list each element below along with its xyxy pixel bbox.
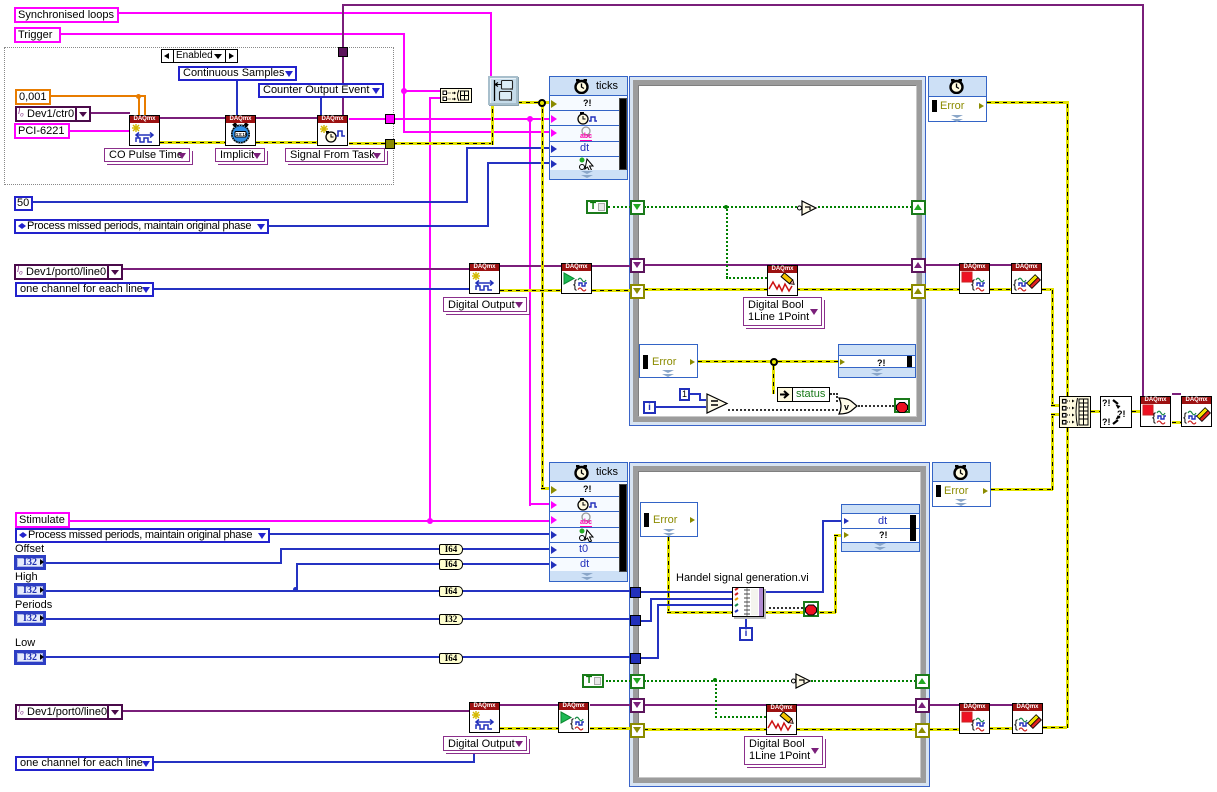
svg-text:{: { xyxy=(1183,410,1187,424)
synchronize timed structures vi xyxy=(488,76,518,105)
wire: DO task channel row 1 xyxy=(122,268,469,270)
timed loop2 right node Error xyxy=(932,462,991,507)
wire: Offset to t0 blue xyxy=(46,562,282,564)
svg-text:{: { xyxy=(971,717,975,731)
wire: error chain top row xyxy=(160,141,225,144)
squares: purple tunnel on dotted frame xyxy=(338,47,348,57)
svg-text:v: v xyxy=(844,402,849,412)
junction: pink dots xyxy=(401,88,407,94)
timed loop1 right node Error xyxy=(928,76,987,122)
wire: error DO row 1 xyxy=(500,289,561,292)
ring Digital Output #1 xyxy=(443,297,527,312)
DAQmx clear task row2 xyxy=(1012,703,1043,734)
wire: timing source name out of DAQmx create timing source xyxy=(349,118,549,120)
svg-text:{: { xyxy=(971,277,975,291)
wire: Process missed periods 2 blue xyxy=(267,533,549,535)
right inner node dt/?! loop2 xyxy=(841,504,920,552)
tunnel green in xyxy=(630,200,645,215)
ring Signal From Task xyxy=(285,148,385,162)
ring Continuous Samples xyxy=(178,66,297,81)
iteration terminal i loop1 xyxy=(643,401,656,414)
svg-text:{: { xyxy=(1152,410,1156,424)
wire: error inside loop2 subvi xyxy=(667,537,670,613)
DAQmx write #2 xyxy=(766,704,797,735)
tunnel purple out xyxy=(911,258,926,273)
merge errors vi xyxy=(1100,396,1132,428)
wire: error loop1 top node out, right rail xyxy=(987,101,1069,104)
wire: Periods blue xyxy=(46,618,631,620)
terminal I32 Periods xyxy=(14,611,46,626)
dotted config frame xyxy=(4,47,394,185)
DAQmx create channel CO xyxy=(129,115,160,146)
wire: Counter Output Event drop blue xyxy=(320,98,322,115)
ring Digital Bool 1Line 1Point #2 xyxy=(744,736,823,765)
tunnel error out loop2 xyxy=(915,723,930,738)
DAQmx stop task row1 xyxy=(959,263,990,294)
square: magenta string tunnel xyxy=(385,114,395,124)
wire: boolean T loop2 green dotted xyxy=(606,680,631,682)
error cluster node loop2 xyxy=(640,502,698,537)
wire: boolean T loop1 green dotted xyxy=(608,206,631,208)
io constant Dev1/ctr0 xyxy=(15,106,91,122)
tunnel purple out loop2 xyxy=(915,698,930,713)
io constant Dev1/port0/line0 #2 xyxy=(15,704,123,720)
ring Digital Bool 1Line 1Point #1 xyxy=(743,297,822,326)
wire: boolean subvi stop loop2 xyxy=(764,607,803,609)
junction: error ring at loop1 input xyxy=(538,99,546,107)
label High xyxy=(15,571,38,583)
svg-text:{: { xyxy=(1013,277,1017,291)
tunnel error in loop2 xyxy=(630,723,645,738)
wire: Low blue xyxy=(46,656,631,658)
DAQmx timing Implicit xyxy=(225,115,256,146)
wire: string Synchronised loops pink xyxy=(115,12,492,14)
wire: string Trigger pink xyxy=(57,33,405,35)
const 0,001 xyxy=(15,89,51,105)
wire: blue i terminal loop2 xyxy=(745,617,747,627)
timed loop 1 frame xyxy=(629,76,926,426)
svg-text:{: { xyxy=(570,716,574,730)
ring CO Pulse Time xyxy=(104,148,190,162)
wire: blue i=1 compare loop1 xyxy=(656,406,706,408)
wire: task between create/implicit/signal xyxy=(160,117,225,119)
or function xyxy=(838,397,859,415)
label Offset xyxy=(15,543,44,555)
svg-text:{: { xyxy=(573,277,577,291)
wire: error drop to loop2 node xyxy=(541,101,544,489)
tunnel I32 blue 1 xyxy=(630,587,641,598)
wire: error inside loop1 xyxy=(698,360,838,363)
svg-text:13:10: 13:10 xyxy=(236,132,248,137)
ring Process missed periods 2 xyxy=(15,528,270,543)
DAQmx clear task right xyxy=(1181,396,1212,427)
build array (2 in) icon xyxy=(440,88,472,103)
iteration terminal i loop2 xyxy=(739,627,753,641)
tunnel error out xyxy=(911,284,926,299)
junction: orange dot xyxy=(136,94,141,99)
ring Counter Output Event xyxy=(258,83,384,98)
const 50 xyxy=(14,196,33,211)
svg-text:{: { xyxy=(1014,717,1018,731)
stop if true loop1 xyxy=(894,398,910,413)
DAQmx write #1 xyxy=(767,265,798,296)
DAQmx create channel DO #1 xyxy=(469,263,500,294)
tunnel purple in loop2 xyxy=(630,698,645,713)
label Synchronised loops xyxy=(14,7,119,23)
wire: boolean inside loop1 compare xyxy=(830,393,838,395)
enum Enabled xyxy=(161,49,238,63)
ring one channel for each line #2 xyxy=(15,756,154,771)
tunnel I32 blue 2 xyxy=(630,615,641,626)
io constant Dev1/port0/line0 #1 xyxy=(14,264,123,280)
terminal I32 Low xyxy=(14,650,46,665)
wire labels I64/I32 xyxy=(439,544,463,555)
constant True loop1 xyxy=(586,200,608,214)
label Periods xyxy=(15,599,52,611)
square: olive error tunnel xyxy=(385,139,395,149)
build array 4 in xyxy=(1059,396,1091,428)
ring one channel for each line #1 xyxy=(15,282,154,297)
wire: 0,001 orange xyxy=(49,95,146,97)
svg-text:?!: ?! xyxy=(1102,398,1111,408)
not gate loop2 xyxy=(790,672,814,690)
svg-text:?!: ?! xyxy=(1102,417,1111,427)
constant True loop2 xyxy=(582,674,604,688)
tunnel I32 blue 3 xyxy=(630,653,641,664)
label Low xyxy=(15,637,35,649)
error cluster node loop1 xyxy=(639,344,698,378)
wire: blue subvi out to dt xyxy=(764,591,824,593)
terminal I32 Offset xyxy=(14,555,46,570)
wire: blue inside loop2 to subvi xyxy=(640,591,732,593)
wire: counter Dev1/ctr0 task xyxy=(91,112,130,114)
subvi Handel signal generation xyxy=(732,587,764,617)
wire: trigger branch vertical to build array / Stimulate junction xyxy=(429,97,431,522)
timed loop 2 frame xyxy=(629,462,930,787)
label Trigger xyxy=(14,27,61,43)
wire: error loop2 node out xyxy=(991,488,1053,491)
wire: Process missed periods 1 blue xyxy=(267,225,489,227)
tunnel green out loop2 xyxy=(915,674,930,689)
wire: one channel for each line 1 blue xyxy=(151,288,469,290)
stop if true loop2 xyxy=(803,601,819,617)
DAQmx start task #2 xyxy=(558,702,589,733)
equals function xyxy=(706,393,729,414)
ring Implicit xyxy=(215,148,265,162)
wire: DAQmx task purple top rail xyxy=(342,4,1144,6)
label Stimulate xyxy=(15,512,70,528)
not gate loop1 xyxy=(796,199,820,217)
DAQmx start task #1 xyxy=(561,263,592,294)
wire: task stop-clear link right xyxy=(1172,393,1181,395)
tunnel green out xyxy=(911,200,926,215)
tunnel green in loop2 xyxy=(630,674,645,689)
wire: error merge chain right xyxy=(1091,410,1100,413)
label PCI-6221 xyxy=(14,123,70,139)
wire: error out of sync vi to loop1 node xyxy=(518,101,549,104)
wire: Continuous Samples drop blue xyxy=(236,81,238,115)
wire: High to dt and tunnel blue xyxy=(46,590,631,592)
wire: error DO row 2 bottom xyxy=(500,727,558,730)
timed loop 2 input node ticks xyxy=(549,462,628,582)
tunnel error in xyxy=(630,284,645,299)
?! right node loop1 xyxy=(838,344,916,378)
terminal I32 High xyxy=(14,583,46,598)
tunnel purple in xyxy=(630,258,645,273)
wire: DO task channel row 2 bottom xyxy=(123,710,469,712)
DAQmx clear task row1 xyxy=(1011,263,1042,294)
DAQmx create timing source Signal From Task xyxy=(317,115,348,146)
input arrows xyxy=(551,100,557,108)
scrollbar xyxy=(619,98,627,170)
unbundle status xyxy=(777,387,830,402)
DAQmx stop task right xyxy=(1140,396,1171,427)
wire: 50 blue xyxy=(32,201,468,203)
constant 1 xyxy=(679,388,690,401)
ring Process missed periods 1 xyxy=(14,219,269,234)
DAQmx create channel DO #2 xyxy=(469,702,500,733)
wire: string Stimulate pink xyxy=(66,520,549,522)
wire: one channel for each line 2 blue xyxy=(151,761,475,763)
DAQmx stop task row2 xyxy=(959,703,990,734)
timed loop 1 input node ticks xyxy=(549,76,628,180)
label Handel signal generation.vi xyxy=(676,572,809,584)
ring Digital Output #2 xyxy=(443,736,527,751)
wire: string PCI-6221 pink xyxy=(67,130,129,132)
